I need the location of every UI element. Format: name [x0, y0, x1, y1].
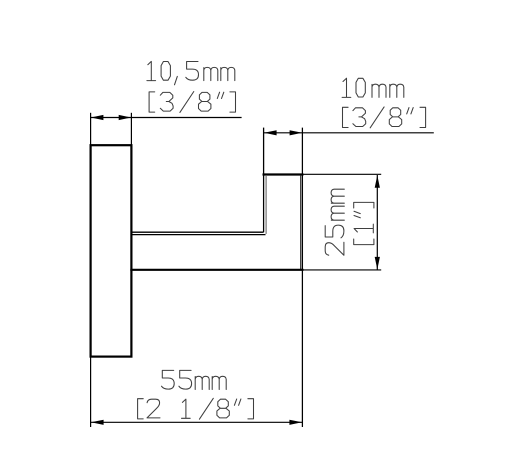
dim 10mm: arrows — [264, 130, 277, 135]
label 25mm (rotated) — [325, 189, 344, 255]
block top edge — [263, 173, 304, 175]
block right inner edge line — [300, 176, 302, 270]
dim 10mm: dimension line — [264, 132, 434, 134]
arm inner corner fillet line (vertical grey) — [265, 176, 267, 234]
label [3/8"] top-right — [343, 107, 426, 128]
label [3/8"] top-left — [149, 92, 235, 113]
block right outer edge / extension line — [301, 128, 303, 427]
dim 55mm: arrows — [91, 420, 104, 425]
wall plate outline — [91, 145, 132, 356]
label 10,5mm — [147, 61, 235, 84]
label [2 1/8"] — [138, 398, 254, 419]
arm top lower edge line — [131, 234, 265, 236]
arm top upper edge line — [131, 231, 263, 233]
block top extension line (25mm top) — [302, 173, 381, 175]
block left edge / extension line — [263, 128, 265, 233]
dim 25mm: arrows — [375, 175, 380, 188]
bottom extension line (25mm bottom) — [302, 269, 381, 271]
dim 25mm: dimension line — [376, 175, 378, 270]
arm + block bottom edge — [130, 269, 303, 271]
label [1"] (rotated) — [354, 202, 374, 244]
dim 55mm: extension lines — [90, 357, 92, 427]
label 10mm — [342, 78, 404, 97]
dim 55mm: dimension line — [91, 421, 302, 423]
dim 10,5mm: arrows — [91, 115, 104, 120]
label 55mm — [162, 370, 227, 389]
dim 10,5mm: extension lines — [90, 113, 92, 145]
dim 10,5mm: dimension line — [90, 117, 242, 119]
